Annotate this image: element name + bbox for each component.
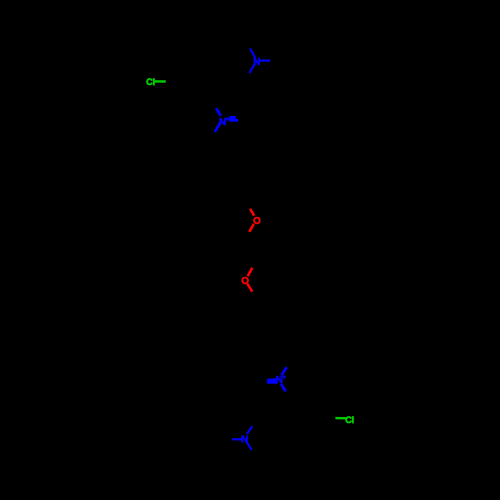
bold wedge N2 to right methyl <box>229 116 238 122</box>
ether O1 (upper oxygen) <box>253 216 261 227</box>
amine N1 (top dimethylamino nitrogen) <box>253 57 260 68</box>
wire Cl1 to ring <box>155 80 166 82</box>
svg-text:Cl: Cl <box>345 415 354 425</box>
wire N3 down-right (ring bond) <box>281 384 286 391</box>
wire N4 to upper-right methyl <box>247 426 253 434</box>
charge plus on N2 <box>226 117 229 121</box>
wire N2 up-left (ring bond) <box>216 108 220 116</box>
wire N1 to upper-left methyl <box>250 48 255 57</box>
charge plus on N3 <box>283 375 286 379</box>
bold wedge N3 to left methyl <box>267 378 277 384</box>
quaternary N2 (upper stereocenter N+) <box>219 117 226 128</box>
Cl1 (top chlorine) <box>146 77 155 87</box>
wire N4 to lower-right methyl <box>247 442 252 450</box>
wire O2 up-right <box>248 268 253 276</box>
wire N3 up-right (ring bond) <box>281 367 287 375</box>
wire O2 down-right <box>247 284 252 292</box>
wire N1 to right chain <box>260 59 270 61</box>
Cl2 (bottom chlorine) <box>345 415 354 425</box>
amine N4 (bottom dimethylamino nitrogen) <box>241 434 248 445</box>
svg-text:Cl: Cl <box>146 77 155 87</box>
wire O1 up-left <box>250 209 254 216</box>
ether O2 (lower oxygen) <box>241 276 249 287</box>
wire N1 to lower-left methyl <box>249 63 255 73</box>
wire Cl2 to ring <box>335 417 346 420</box>
wire N2 down-left (ring bond) <box>215 122 221 132</box>
wire O1 down-left <box>249 224 254 232</box>
quaternary N3 (lower stereocenter N+) <box>276 375 283 386</box>
wire N4 to left chain <box>232 438 242 440</box>
